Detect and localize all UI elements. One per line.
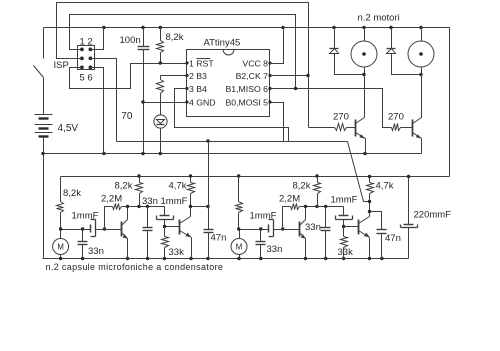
resistor R5 8,2k (mic1 bias) [60, 177, 62, 202]
wire mic2 output node [369, 202, 371, 212]
ISP header connector body [78, 46, 95, 70]
svg-text:4,7k: 4,7k [169, 181, 187, 192]
resistor R6 2,2M (mic1 feedback) [105, 207, 113, 230]
svg-text:1mmF: 1mmF [331, 195, 358, 206]
resistor R11 2,2M (mic2 feedback) [283, 207, 291, 230]
dots mic1 output [189, 205, 192, 208]
svg-text:100n: 100n [120, 35, 141, 46]
svg-text:47n: 47n [211, 233, 227, 244]
wire mic1 stage2 base [165, 226, 180, 228]
wire IC pin5 MOSI down [271, 103, 284, 142]
svg-text:1mmF: 1mmF [250, 211, 277, 222]
wire VCC rail (battery + to right side) [44, 28, 450, 177]
svg-text:70: 70 [121, 111, 133, 122]
dots mic2 node [237, 227, 240, 230]
dots mic1 node [59, 227, 62, 230]
svg-text:33n: 33n [305, 222, 321, 233]
wire ISP pin3 SCK to IC pin7 (top line) [57, 3, 309, 128]
IC U1 ATtiny45 body [187, 50, 270, 117]
resistor R13 33k (mic2) [343, 227, 345, 237]
wire ISP pin4 MOSI down [91, 59, 117, 142]
diode D1 [334, 28, 336, 49]
svg-text:8,2k: 8,2k [115, 181, 133, 192]
svg-text:4 GND: 4 GND [189, 97, 216, 107]
LED D3 [154, 115, 167, 128]
svg-text:2,2M: 2,2M [101, 194, 122, 205]
resistor R10 8,2k (mic2 bias) [238, 177, 240, 202]
resistor R14 4,7k (mic2 load) [369, 177, 371, 183]
wire mic1 output node [191, 206, 209, 208]
dot mic1 output riser junction [206, 139, 209, 142]
wire mic bottom rail [43, 258, 409, 260]
svg-text:4,7k: 4,7k [376, 181, 394, 192]
svg-text:33k: 33k [169, 247, 185, 258]
microphone M1 capsule [53, 239, 69, 255]
switch S1 (power) [43, 28, 45, 59]
dots mic1 collector node [126, 205, 129, 208]
wire ISP pin2 VCC riser [91, 28, 104, 50]
resistor R2 70 (LED) [160, 76, 162, 80]
wire ISP pin1 MISO to IC pin6 [70, 15, 296, 89]
svg-text:33n: 33n [88, 246, 104, 257]
svg-text:B2,CK 7: B2,CK 7 [236, 71, 269, 81]
capacitor C1 100n [143, 28, 145, 47]
wire mic1 output riser [208, 142, 210, 207]
svg-text:n.2 capsule microfoniche a con: n.2 capsule microfoniche a condensatore [46, 262, 224, 272]
svg-text:8,2k: 8,2k [63, 188, 81, 199]
svg-text:33k: 33k [338, 247, 354, 258]
resistor R1 8,2k (RST pullup) [160, 28, 162, 41]
junction dots on GND rail [41, 152, 44, 155]
wire MOSI line [117, 141, 348, 143]
dot mic2 base node [342, 225, 345, 228]
capacitor C11 47n (mic2) [370, 212, 382, 230]
dot pin7 junction [306, 74, 309, 77]
capacitor C6 47n (mic1) [208, 207, 210, 230]
wire mic2 stage1 collector node [306, 206, 344, 208]
motor M2 [408, 41, 434, 67]
dots mic2 collector node [304, 205, 307, 208]
svg-text:1 RST: 1 RST [189, 58, 214, 68]
resistor R3 270 (Q1 base) [309, 127, 335, 129]
wire IC pin6 to base resistor Q2 [271, 89, 392, 128]
wire ISP pin6 GND riser [91, 68, 104, 154]
svg-text:270: 270 [333, 112, 349, 123]
wire IC pin4 GND stub [144, 102, 188, 104]
transistor Q4 (mic1 second stage) [179, 220, 181, 235]
capacitor C8 1mmF (mic2 coupling) [268, 225, 270, 233]
wire mic2 stage2 base [344, 226, 359, 228]
svg-text:5 6: 5 6 [80, 73, 93, 84]
wire left ground drop to mic bottom rail [43, 154, 45, 259]
junction dots on bottom rail [59, 257, 62, 260]
dot mic1 base node [163, 225, 166, 228]
diode D2 [391, 28, 393, 49]
transistor Q5 (mic2 first stage) [299, 222, 301, 237]
motor M1 [351, 41, 377, 67]
wire IC pin2 B3 to R2 [161, 75, 188, 77]
wire IC pin3 B4 loop to MOSI net [175, 89, 289, 142]
wire ISP pin5 RST to IC pin1 [70, 64, 188, 89]
svg-text:B0,MOSI 5: B0,MOSI 5 [226, 97, 269, 107]
wire IC pin8 VCC riser [271, 28, 284, 64]
transistor Q3 (mic1 first stage) [121, 222, 123, 237]
ISP pins 1-6 (dots) [80, 48, 84, 52]
svg-text:220mmF: 220mmF [414, 210, 452, 221]
capacitor C12 220mmF [408, 177, 410, 225]
wire mic1 stage1 collector node [128, 206, 165, 208]
svg-text:M: M [236, 242, 243, 251]
wire GND rail [44, 153, 422, 155]
capacitor C10 1mmF (mic2 interstage) [343, 207, 345, 216]
wire mic1 signal node [61, 229, 91, 231]
svg-text:1 2: 1 2 [80, 37, 93, 48]
svg-text:n.2 motori: n.2 motori [358, 13, 400, 24]
svg-text:1mmF: 1mmF [72, 211, 99, 222]
svg-text:M: M [57, 242, 64, 251]
microphone M2 capsule [231, 239, 247, 255]
svg-text:ISP: ISP [54, 60, 69, 71]
capacitor C7 33n (mic2) [260, 230, 262, 242]
svg-text:8,2k: 8,2k [293, 181, 311, 192]
IC pin connection dots [185, 61, 188, 64]
transistor Q6 (mic2 second stage) [358, 220, 360, 235]
svg-text:33n: 33n [142, 196, 158, 207]
wire mic VCC rail [61, 176, 450, 178]
svg-text:47n: 47n [385, 233, 401, 244]
svg-text:8,2k: 8,2k [166, 32, 184, 43]
dot motor2 bottom junction [419, 73, 422, 76]
resistor R9 4,7k (mic1 load) [190, 177, 192, 183]
wire mic2 signal node [239, 229, 269, 231]
capacitor C2 33n (mic1) [82, 230, 84, 242]
dots mic2 output [368, 200, 371, 203]
dot pullup to RST line [159, 61, 162, 64]
capacitor C9 33n (mic2) [325, 207, 327, 228]
svg-text:2 B3: 2 B3 [189, 71, 207, 81]
wire diagonal MOSI to mic2 output [348, 142, 370, 202]
transistor Q2 [412, 120, 414, 137]
battery BT1 4,5V [35, 114, 53, 116]
svg-text:3 B4: 3 B4 [189, 84, 207, 94]
wire IC pin7 to SCK net [271, 75, 309, 77]
dot 100n to GND stub junction [141, 100, 144, 103]
svg-text:ATtiny45: ATtiny45 [204, 38, 241, 49]
svg-text:4,5V: 4,5V [58, 123, 79, 134]
svg-text:33n: 33n [267, 244, 283, 255]
svg-text:B1,MISO 6: B1,MISO 6 [226, 84, 269, 94]
svg-text:1mmF: 1mmF [161, 196, 188, 207]
resistor R8 33k (mic1) [164, 227, 166, 237]
dot motor1 bottom junction [362, 73, 365, 76]
capacitor C5 1mmF (mic1 interstage) [164, 207, 166, 216]
capacitor C4 33n (mic1) [147, 207, 149, 228]
junction dots on VCC rail [102, 26, 105, 29]
transistor Q1 [355, 120, 357, 137]
svg-text:2,2M: 2,2M [279, 194, 300, 205]
svg-text:270: 270 [388, 112, 404, 123]
svg-text:VCC 8: VCC 8 [242, 58, 268, 68]
resistor R7 8,2k (mic1 stage1 load) [139, 177, 141, 183]
dot MISO joins pin6 line [294, 87, 297, 90]
resistor R12 8,2k (mic2 load) [317, 177, 319, 183]
capacitor C3 1mmF (mic1 coupling) [90, 225, 92, 233]
junction dots on mic rail [137, 174, 140, 177]
resistor R4 270 (Q2 base) [392, 124, 401, 131]
